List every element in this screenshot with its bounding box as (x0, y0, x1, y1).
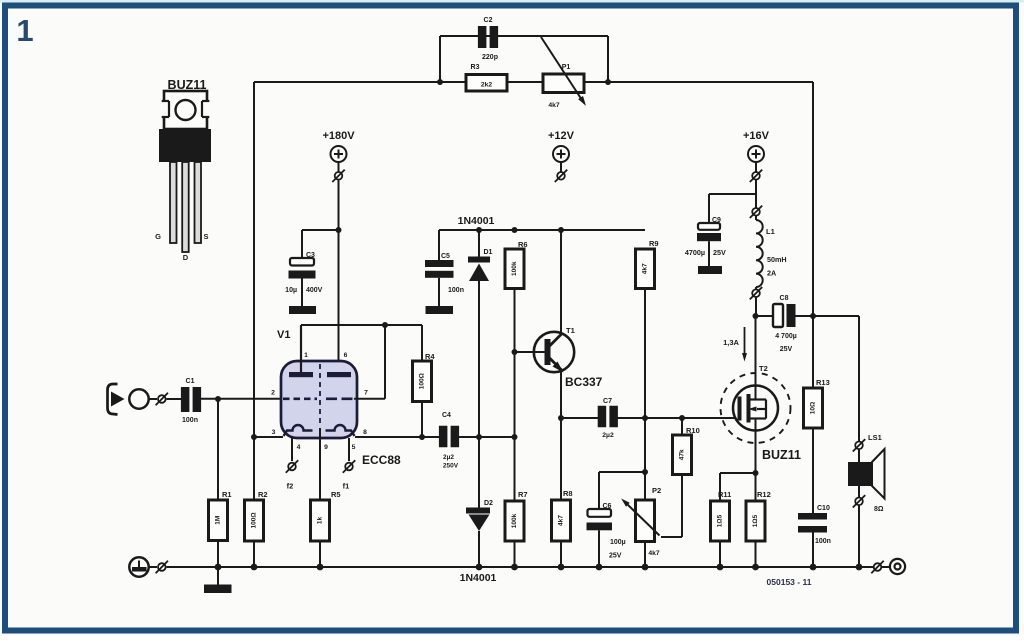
wire +180V down to tube anode (338, 180, 340, 372)
svg-text:T1: T1 (566, 326, 575, 335)
wire conn to LS1 (858, 450, 860, 463)
ground terminal (129, 557, 148, 576)
wire T2 gate (737, 417, 739, 419)
wire C5 top (438, 230, 440, 260)
audio source icon (108, 384, 118, 415)
resistor R2 (245, 500, 264, 541)
wire R2 top (253, 437, 255, 500)
node ground R2 (251, 564, 258, 571)
wire C2 left drop (439, 36, 441, 83)
wire feedback right drop to output (812, 82, 814, 316)
svg-text:C4: C4 (442, 412, 451, 419)
svg-text:10µ: 10µ (285, 287, 297, 294)
svg-text:C3: C3 (306, 252, 315, 259)
node R10 tap (679, 415, 685, 421)
resistor R11 (711, 501, 730, 541)
svg-text:2A: 2A (767, 269, 776, 278)
svg-text:4700µ: 4700µ (685, 248, 705, 257)
svg-text:400V: 400V (306, 287, 323, 294)
potentiometer P2 (636, 500, 655, 542)
connector input (158, 395, 166, 403)
connector L1 top (752, 208, 760, 216)
svg-text:4k7: 4k7 (648, 550, 660, 557)
capacitor C2 (478, 26, 487, 48)
resistor R1 (209, 500, 228, 541)
node ground R12 (752, 564, 759, 571)
wire C7 to gate (618, 417, 738, 419)
wire speaker drop (858, 316, 860, 441)
wire R8 top (560, 418, 562, 500)
svg-text:C5: C5 (441, 253, 450, 260)
output terminal (890, 559, 905, 574)
mosfet T2 dashed circle (721, 373, 791, 443)
svg-text:R11: R11 (718, 490, 731, 499)
wire R7 bottom (514, 541, 516, 567)
svg-text:P2: P2 (652, 486, 661, 495)
wire D1 bottom (478, 281, 480, 437)
svg-text:2: 2 (271, 390, 275, 397)
svg-text:25V: 25V (780, 346, 793, 353)
resistor R7 (505, 501, 524, 541)
resistor R8 (552, 500, 571, 541)
svg-text:100n: 100n (182, 417, 198, 424)
svg-text:050153 - 11: 050153 - 11 (767, 577, 812, 587)
connector ground input (158, 563, 166, 571)
svg-text:100k: 100k (511, 261, 518, 276)
node ground R5 (317, 564, 324, 571)
ground bar C9 (698, 266, 722, 274)
capacitor C7 (598, 406, 607, 428)
wire R1 bottom (217, 541, 219, 568)
wire R6 to base to R7 (514, 289, 516, 502)
connector LS1 top (855, 442, 863, 450)
svg-text:1Ω5: 1Ω5 (717, 514, 724, 527)
resistor R4 (413, 361, 432, 402)
node feedback cathode (251, 434, 257, 440)
svg-text:1,3A: 1,3A (723, 338, 739, 347)
svg-text:1N4001: 1N4001 (460, 572, 497, 584)
svg-text:8: 8 (363, 429, 367, 436)
node R4 cathode row (419, 434, 425, 440)
capacitor C3 (290, 258, 314, 266)
tube V1 cathode a (284, 425, 313, 436)
node output feedback (810, 313, 816, 319)
connector LS1 bottom (855, 498, 863, 506)
wire C4 right (459, 436, 515, 438)
wire anode pin 1 lead (300, 325, 302, 372)
svg-text:100µ: 100µ (610, 539, 626, 546)
svg-text:10Ω: 10Ω (810, 402, 817, 414)
wire +12V rail (439, 229, 645, 231)
node P1-right (605, 79, 611, 85)
svg-text:9: 9 (324, 444, 328, 451)
wire R8 bottom (560, 541, 562, 567)
svg-text:1: 1 (304, 352, 308, 359)
wire feedback row left (254, 81, 466, 83)
wire T2 drain (755, 316, 757, 400)
svg-text:2µ2: 2µ2 (443, 454, 454, 461)
node ground LS1 (856, 564, 863, 571)
svg-text:4k7: 4k7 (642, 263, 649, 274)
svg-text:C1: C1 (186, 378, 195, 385)
wire cathode pin 8 row (355, 436, 439, 438)
wire C2 right drop (607, 36, 609, 83)
svg-text:R12: R12 (757, 490, 771, 499)
node rail D1 (476, 227, 482, 233)
svg-text:250V: 250V (443, 463, 459, 470)
wire R10 to P2 wiper (681, 475, 683, 538)
svg-text:8Ω: 8Ω (874, 506, 884, 513)
wire L1 to conn (755, 287, 757, 289)
svg-text:1Ω5: 1Ω5 (752, 514, 759, 527)
svg-text:C7: C7 (603, 398, 612, 405)
svg-text:2k2: 2k2 (481, 82, 493, 89)
node ground C10 (810, 564, 817, 571)
wire T1 base (515, 351, 546, 353)
wire SRPP top row (301, 324, 422, 326)
svg-text:+180V: +180V (322, 130, 355, 142)
wire ground rail (167, 566, 874, 568)
node ground C6 (596, 564, 603, 571)
wire C10 bottom (812, 533, 814, 568)
svg-text:2µ2: 2µ2 (602, 432, 614, 439)
connector f2 (288, 463, 296, 471)
svg-text:C10: C10 (817, 505, 830, 512)
connector f1 (345, 463, 353, 471)
node C4 base column (512, 434, 518, 440)
speaker LS1 (848, 462, 872, 486)
node ground R11 (717, 564, 724, 571)
node pin7 junction (382, 322, 388, 328)
svg-text:+12V: +12V (548, 130, 575, 142)
svg-text:C2: C2 (484, 17, 493, 24)
BUZ11 leg D (182, 162, 189, 252)
svg-text:BC337: BC337 (565, 375, 603, 389)
inductor L1 (756, 220, 763, 287)
wire heater pin 5 stub (348, 438, 350, 461)
svg-text:S: S (203, 232, 208, 241)
node rail R6 (512, 227, 518, 233)
wire R11 bottom (719, 541, 721, 567)
wire R13 to C10 (812, 428, 814, 513)
tube V1 anode a (289, 372, 313, 377)
svg-text:47k: 47k (679, 449, 686, 460)
ground stub below R1 (217, 567, 219, 585)
tube V1 divider (319, 364, 321, 427)
tube V1 cathode b (326, 425, 355, 436)
resistor R9 (636, 249, 655, 289)
wire source to R11 (720, 472, 756, 474)
svg-text:100k: 100k (511, 513, 518, 528)
node source split (753, 470, 759, 476)
svg-text:R2: R2 (258, 490, 268, 499)
BUZ11 package body (159, 129, 211, 162)
wire shield pin 9 (319, 428, 321, 500)
transistor T1 (534, 332, 574, 372)
svg-text:R1: R1 (222, 490, 232, 499)
BUZ11 package tab (164, 91, 207, 129)
connector L1 bottom (752, 289, 760, 297)
potentiometer P1 (543, 74, 584, 93)
svg-text:f2: f2 (287, 482, 294, 491)
wire L1 conn to drain node (755, 297, 757, 316)
node C6 tap (642, 469, 648, 475)
wire gnd terminal to conn (149, 566, 157, 568)
resistor R13 (804, 388, 823, 428)
tube V1 envelope (281, 361, 357, 438)
svg-text:L1: L1 (766, 227, 775, 236)
ground bar main (204, 585, 232, 594)
wire T1 collector (560, 230, 562, 334)
wire R3-P1 (507, 81, 543, 83)
node ground R1 (215, 564, 222, 571)
capacitor C4 (439, 426, 448, 448)
wire T2 source (755, 419, 757, 502)
wire P2 bottom (644, 542, 646, 568)
resistor R6 (505, 249, 524, 289)
wire LS1 bottom to ground (858, 506, 860, 568)
wire input-conn (149, 398, 157, 400)
svg-text:1M: 1M (215, 516, 222, 525)
wire C3 branch (302, 229, 339, 231)
node ground R8 (558, 564, 565, 571)
wire C8 to speaker column (796, 315, 860, 317)
wire cathode pin 3 (254, 436, 283, 438)
wire conn to L1 (755, 216, 757, 220)
diode D1 (468, 257, 490, 263)
svg-text:+16V: +16V (743, 130, 770, 142)
capacitor C9 (698, 223, 720, 230)
wire heater pin 4 stub (291, 438, 293, 461)
svg-text:f1: f1 (343, 482, 350, 491)
wire D2 bottom (478, 531, 480, 567)
wire R12 bottom (755, 541, 757, 567)
capacitor C6 (588, 509, 612, 517)
ground bar C5 (426, 306, 454, 314)
svg-text:ECC88: ECC88 (362, 453, 401, 467)
svg-text:220p: 220p (482, 54, 498, 61)
wire conn-C1 (167, 398, 182, 400)
tube V1 grid b (326, 397, 353, 400)
svg-text:25V: 25V (609, 553, 622, 560)
svg-text:D2: D2 (484, 500, 493, 507)
wire R9 down to P2 (644, 289, 646, 501)
resistor R5 (311, 500, 330, 541)
wire grid pin 7 lead (354, 398, 385, 400)
node C4 diode chain (476, 434, 482, 440)
svg-text:1N4001: 1N4001 (458, 215, 495, 227)
wire C1 to grid pin 2 (201, 398, 283, 400)
resistor R12 (746, 501, 765, 541)
connector output ground (874, 563, 882, 571)
resistor R10 (673, 435, 692, 475)
wire R1 top (217, 399, 219, 500)
svg-text:1k: 1k (317, 517, 324, 525)
wire +16V down (755, 180, 757, 208)
mosfet T2 (733, 386, 778, 431)
svg-text:100n: 100n (448, 287, 464, 294)
wire drain node to C8 (756, 315, 774, 317)
svg-text:100Ω: 100Ω (251, 512, 258, 528)
svg-text:G: G (155, 232, 161, 241)
svg-text:C8: C8 (780, 295, 789, 302)
capacitor C10 (798, 513, 827, 520)
wire feedback left drop (253, 82, 255, 437)
svg-text:6: 6 (344, 352, 348, 359)
wire T1 emitter (560, 370, 562, 418)
diode D2 (466, 508, 490, 514)
wire D2 top (478, 437, 480, 508)
node rail T1 (558, 227, 564, 233)
svg-text:C6: C6 (603, 503, 612, 510)
node gate row P2 (642, 415, 648, 421)
ground bar C3 (289, 306, 316, 314)
svg-text:50mH: 50mH (767, 255, 787, 264)
svg-text:R13: R13 (816, 378, 830, 387)
svg-text:7: 7 (364, 390, 368, 397)
svg-text:R7: R7 (518, 490, 528, 499)
svg-text:LS1: LS1 (868, 433, 882, 442)
svg-text:C9: C9 (712, 217, 721, 224)
node C3 tap (336, 227, 342, 233)
node ground P2 (642, 564, 649, 571)
node input R1 (215, 396, 221, 402)
svg-text:R10: R10 (686, 426, 700, 435)
svg-text:1: 1 (16, 13, 33, 48)
svg-text:D: D (183, 253, 189, 262)
wire R5 bottom (319, 541, 321, 567)
svg-text:V1: V1 (277, 329, 290, 341)
BUZ11 leg S (195, 162, 202, 243)
svg-text:5: 5 (352, 444, 356, 451)
wire LS1 to conn (858, 486, 860, 497)
svg-text:4k7: 4k7 (558, 515, 565, 526)
svg-text:100Ω: 100Ω (419, 373, 426, 389)
resistor R3 (466, 75, 507, 92)
node output drain (753, 313, 759, 319)
wire R2 bottom (253, 541, 255, 567)
wire emitter to C7 (561, 417, 598, 419)
node emitter C7 (558, 415, 564, 421)
capacitor C1 (181, 387, 190, 412)
node C2-R3 (437, 79, 443, 85)
svg-text:T2: T2 (759, 364, 768, 373)
input terminal (129, 389, 148, 408)
capacitor C5 (425, 260, 454, 267)
wire C6 branch (599, 471, 645, 473)
node ground R7 (511, 564, 518, 571)
svg-text:R6: R6 (518, 240, 528, 249)
wire R4 top (421, 325, 423, 361)
node ground D2 (476, 564, 483, 571)
svg-text:R9: R9 (649, 239, 659, 248)
svg-text:R3: R3 (471, 64, 480, 71)
wire P1 right (584, 81, 813, 83)
wire C2 top (440, 35, 608, 37)
svg-text:R8: R8 (563, 489, 573, 498)
svg-text:BUZ11: BUZ11 (762, 448, 801, 462)
BUZ11 leg G (170, 162, 177, 243)
wire D1 top (478, 230, 480, 257)
wire R4 bottom (421, 402, 423, 438)
wire conn to output terminal (882, 566, 890, 568)
svg-text:3: 3 (272, 429, 276, 436)
wire R13 top (812, 316, 814, 388)
svg-text:4 700µ: 4 700µ (775, 333, 797, 340)
svg-text:R4: R4 (425, 352, 435, 361)
svg-text:4k7: 4k7 (548, 102, 560, 109)
svg-text:100n: 100n (815, 538, 831, 545)
tube V1 anode b (327, 372, 351, 377)
capacitor C8 (773, 304, 783, 327)
svg-text:4: 4 (297, 444, 301, 451)
node base junction (512, 349, 518, 355)
tube V1 grid a (283, 397, 317, 400)
svg-text:D1: D1 (484, 249, 493, 256)
wire R10 top (681, 418, 683, 435)
wire C9 branch (709, 193, 756, 195)
svg-text:R5: R5 (331, 490, 341, 499)
svg-text:25V: 25V (713, 248, 726, 257)
